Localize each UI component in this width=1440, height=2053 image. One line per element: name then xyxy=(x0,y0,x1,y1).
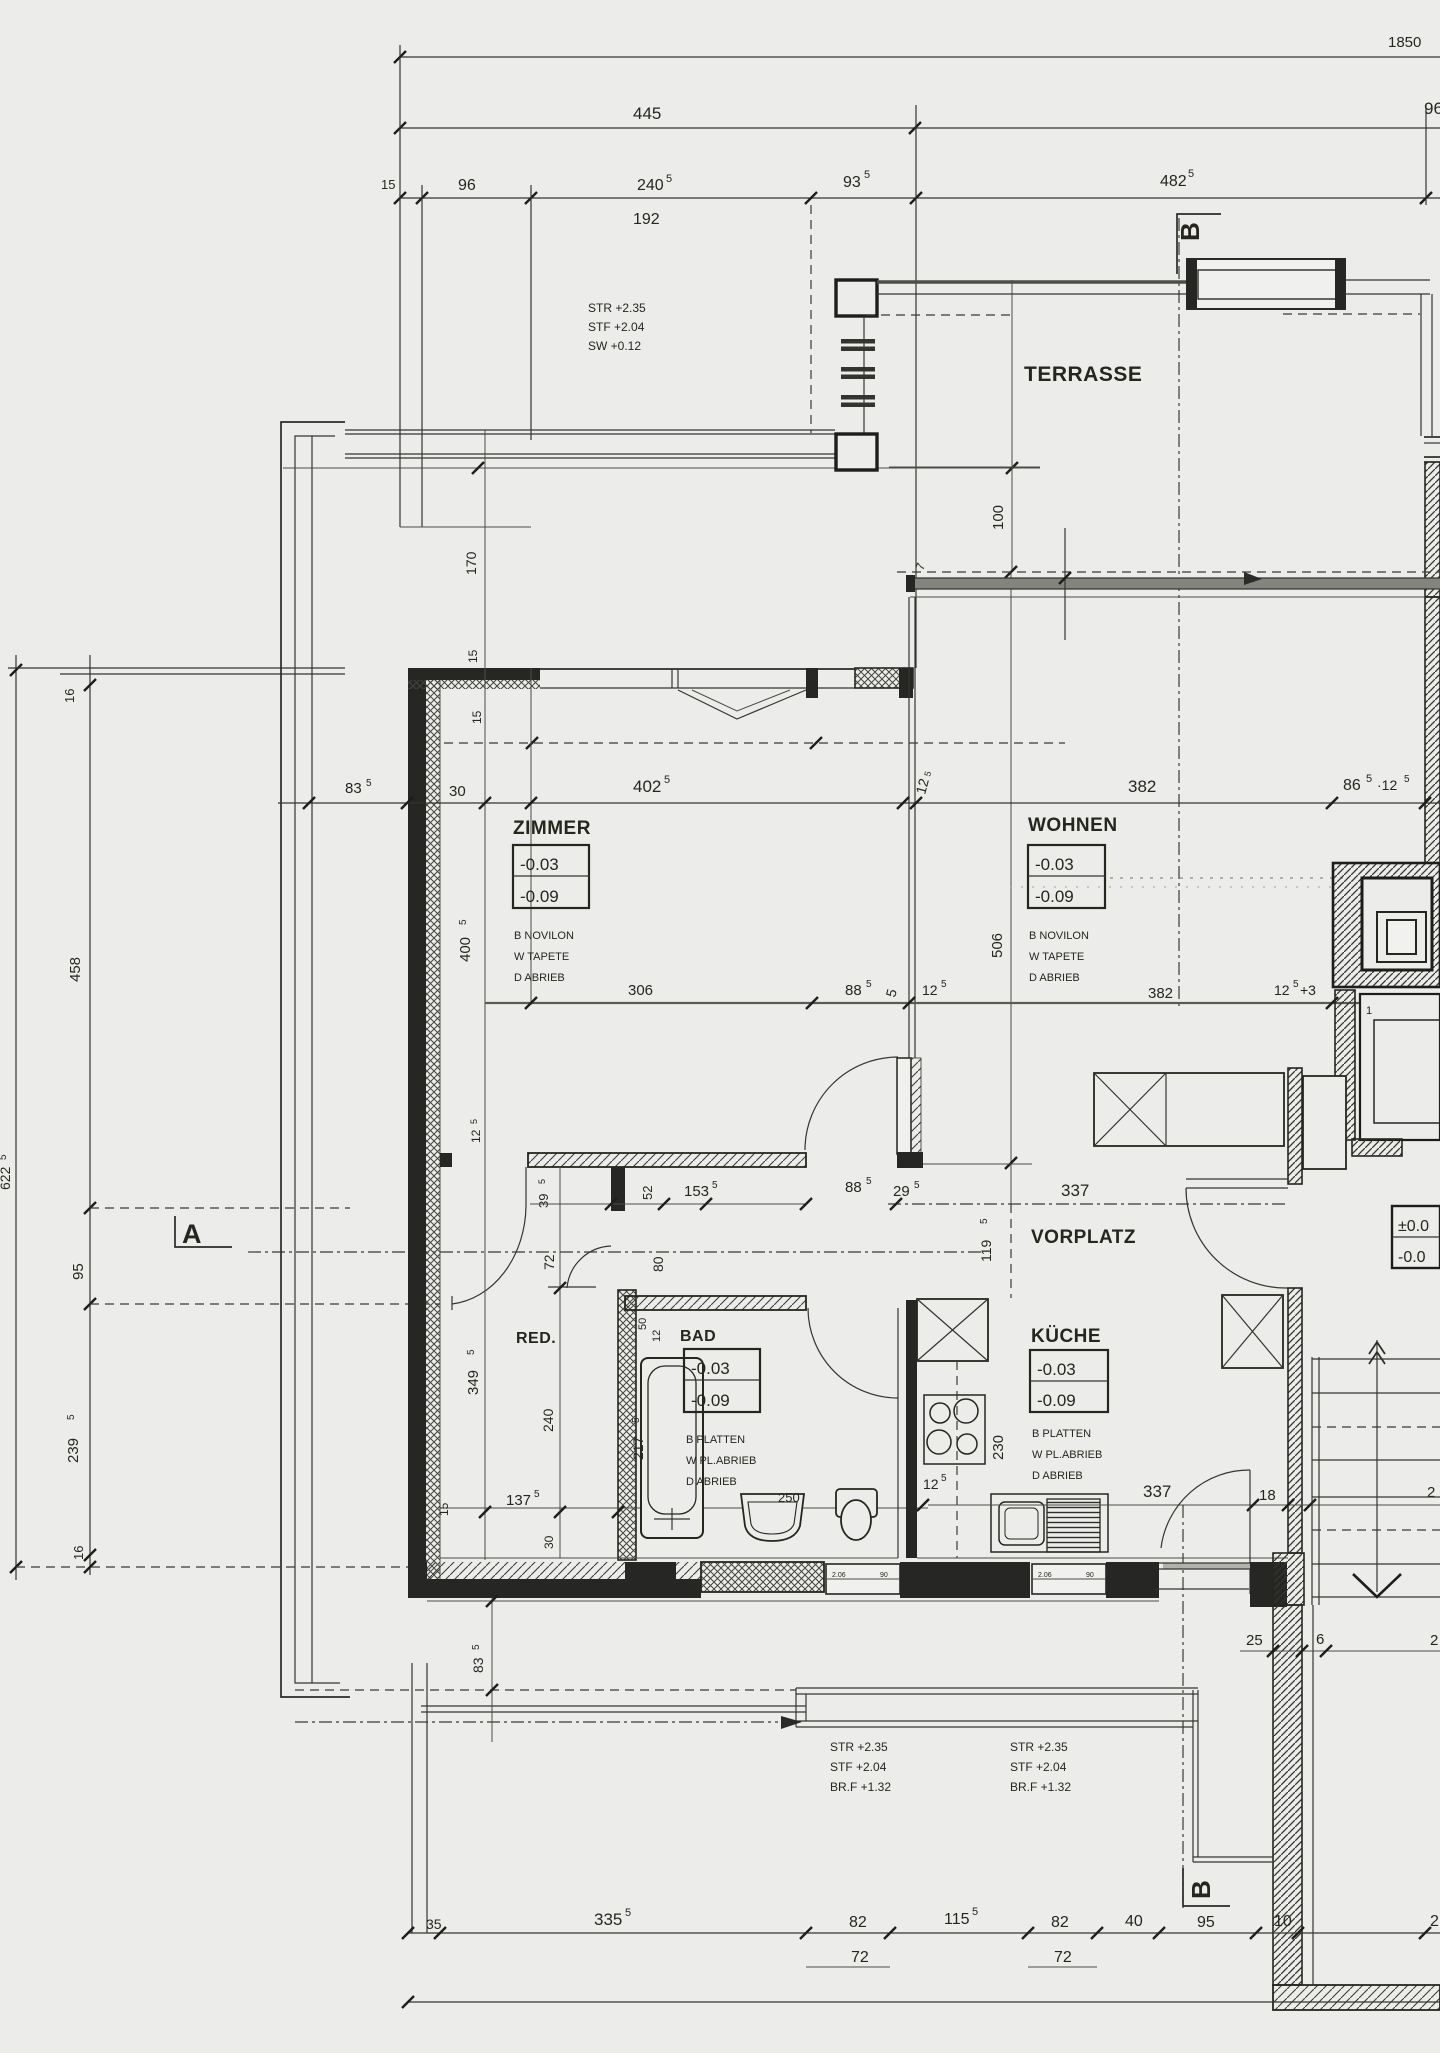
washbasin xyxy=(741,1494,804,1541)
svg-text:90: 90 xyxy=(880,1572,888,1579)
svg-text:5: 5 xyxy=(666,173,672,185)
section marker B top xyxy=(1177,214,1221,274)
svg-text:458: 458 xyxy=(67,957,84,982)
svg-text:2.06: 2.06 xyxy=(832,1572,846,1579)
beam east of window xyxy=(1345,279,1430,281)
long thin line y=468 with ticks xyxy=(283,467,1040,469)
svg-text:482: 482 xyxy=(1160,173,1187,190)
bad inner floor line xyxy=(440,1557,898,1559)
svg-text:25: 25 xyxy=(1246,1632,1263,1649)
svg-text:6: 6 xyxy=(1316,1631,1324,1648)
svg-text:BAD: BAD xyxy=(680,1328,716,1345)
pier xyxy=(806,668,818,698)
svg-text:192: 192 xyxy=(633,211,660,228)
svg-text:15: 15 xyxy=(413,1496,427,1510)
window opening V symbol xyxy=(678,690,806,719)
svg-text:B NOVILON: B NOVILON xyxy=(1029,930,1089,942)
svg-text:240: 240 xyxy=(637,177,664,194)
svg-text:5: 5 xyxy=(979,1218,990,1224)
right edge rails xyxy=(1420,294,1422,436)
svg-text:15: 15 xyxy=(470,710,484,724)
svg-text:5: 5 xyxy=(941,1473,947,1484)
svg-text:12: 12 xyxy=(469,1129,483,1143)
interior dashed line zimmer xyxy=(444,742,1065,744)
svg-text:239: 239 xyxy=(65,1438,82,1463)
ZIMMER north-east wall corner hatched xyxy=(855,668,913,688)
svg-text:250: 250 xyxy=(778,1490,800,1505)
bottom right dim line xyxy=(1240,1650,1440,1652)
bad value box xyxy=(684,1349,760,1412)
stove xyxy=(924,1395,985,1464)
svg-text:5: 5 xyxy=(864,169,870,181)
svg-text:5: 5 xyxy=(66,1414,77,1420)
svg-text:16: 16 xyxy=(71,1546,86,1560)
vorplatz dim line 337 xyxy=(888,1203,1288,1205)
svg-text:86: 86 xyxy=(1343,777,1361,794)
svg-text:39: 39 xyxy=(536,1194,551,1208)
svg-text:2: 2 xyxy=(1427,1484,1435,1501)
svg-text:-0.03: -0.03 xyxy=(1037,1360,1076,1379)
svg-text:5: 5 xyxy=(664,774,670,786)
svg-text:D ABRIEB: D ABRIEB xyxy=(1032,1470,1083,1482)
svg-text:5: 5 xyxy=(471,1644,482,1650)
svg-text:2.06: 2.06 xyxy=(1038,1572,1052,1579)
right exterior wall hatched (terrace to wohnen) xyxy=(1425,462,1440,597)
svg-text:-0.09: -0.09 xyxy=(691,1391,730,1410)
svg-text:5: 5 xyxy=(469,1119,479,1124)
svg-text:93: 93 xyxy=(843,174,861,191)
svg-text:5: 5 xyxy=(1366,773,1372,785)
window right xyxy=(818,668,855,670)
svg-text:18: 18 xyxy=(1259,1487,1276,1504)
top extension lines xyxy=(399,45,401,527)
svg-text:5: 5 xyxy=(712,1180,718,1191)
svg-text:72: 72 xyxy=(1054,1949,1072,1966)
svg-text:230: 230 xyxy=(990,1435,1007,1460)
svg-text:B PLATTEN: B PLATTEN xyxy=(1032,1428,1091,1440)
top dimension line 445 / 96 xyxy=(400,127,1440,129)
svg-text:WOHNEN: WOHNEN xyxy=(1028,815,1118,836)
main dim line y=803 xyxy=(278,802,1440,804)
svg-text:100: 100 xyxy=(990,505,1007,530)
svg-text:B PLATTEN: B PLATTEN xyxy=(686,1434,745,1446)
svg-text:349: 349 xyxy=(465,1370,482,1395)
vorplatz east wall upper xyxy=(1288,1068,1302,1184)
svg-text:12: 12 xyxy=(922,982,938,998)
door bad-red swing xyxy=(567,1246,611,1288)
svg-text:-0.09: -0.09 xyxy=(1037,1391,1076,1410)
svg-text:88: 88 xyxy=(845,982,862,999)
pergola west wall (double lines) xyxy=(281,422,350,1697)
svg-text:82: 82 xyxy=(1051,1914,1069,1931)
svg-text:W TAPETE: W TAPETE xyxy=(1029,951,1084,963)
svg-text:STF +2.04: STF +2.04 xyxy=(1010,1760,1067,1774)
svg-text:STR +2.35: STR +2.35 xyxy=(830,1740,888,1754)
kueche inner floor line xyxy=(917,1557,1288,1559)
svg-text:·12: ·12 xyxy=(1377,777,1397,793)
stairhall west wall lower xyxy=(1273,1553,1304,1605)
door bad leaf+swing xyxy=(897,1308,899,1400)
zimmer value box xyxy=(513,845,589,908)
svg-text:VORPLATZ: VORPLATZ xyxy=(1031,1227,1136,1248)
kueche value box xyxy=(1030,1350,1108,1412)
svg-text:-0.09: -0.09 xyxy=(520,887,559,906)
svg-text:115: 115 xyxy=(944,1911,970,1928)
stairs xyxy=(1311,1357,1313,1605)
svg-text:35: 35 xyxy=(426,1916,442,1932)
svg-text:95: 95 xyxy=(70,1263,87,1280)
svg-text:TERRASSE: TERRASSE xyxy=(1024,363,1142,386)
svg-text:337: 337 xyxy=(1061,1181,1089,1200)
svg-text:5: 5 xyxy=(866,979,872,990)
terrace north window xyxy=(1187,259,1345,309)
svg-text:337: 337 xyxy=(1143,1482,1171,1501)
ZIMMER east wall double line xyxy=(908,597,910,1058)
svg-text:10: 10 xyxy=(1274,1913,1292,1930)
svg-text:382: 382 xyxy=(1148,985,1173,1002)
entry door swing xyxy=(1161,1470,1250,1548)
garden walls south xyxy=(295,1689,796,1691)
svg-text:5: 5 xyxy=(458,919,469,925)
chimney block xyxy=(1333,863,1440,987)
vorplatz east wall lower xyxy=(1288,1288,1302,1553)
svg-text:15: 15 xyxy=(381,177,395,192)
svg-text:72: 72 xyxy=(851,1949,869,1966)
top dimension line 1850 xyxy=(400,56,1440,58)
VORPLATZ closet with X xyxy=(1094,1073,1284,1146)
svg-text:382: 382 xyxy=(1128,777,1156,796)
door vorplatz-stairhall xyxy=(1186,1178,1288,1180)
svg-text:12: 12 xyxy=(1274,982,1290,998)
svg-text:30: 30 xyxy=(449,783,466,800)
svg-text:96: 96 xyxy=(458,177,476,194)
svg-text:12: 12 xyxy=(923,1476,939,1492)
bad west wall xyxy=(618,1290,636,1560)
svg-text:15: 15 xyxy=(437,1502,451,1516)
wohnen north wall (window band) xyxy=(897,571,1440,573)
stairhall south wall xyxy=(1273,1985,1440,2010)
bathtub xyxy=(641,1358,703,1538)
svg-text:±0.0: ±0.0 xyxy=(1398,1218,1429,1235)
dim line y=1003 xyxy=(485,1002,1440,1004)
svg-text:STF +2.04: STF +2.04 xyxy=(588,320,645,334)
svg-text:D ABRIEB: D ABRIEB xyxy=(686,1476,737,1488)
svg-text:5: 5 xyxy=(0,1154,9,1160)
svg-text:STR +2.35: STR +2.35 xyxy=(588,301,646,315)
svg-text:95: 95 xyxy=(1197,1914,1215,1931)
svg-text:RED.: RED. xyxy=(516,1330,556,1347)
svg-text:88: 88 xyxy=(845,1179,862,1196)
left vertical dimension column xyxy=(15,655,17,1580)
dim line y=1204 red/bad xyxy=(530,1203,806,1205)
terrace post top xyxy=(836,280,877,316)
svg-text:D ABRIEB: D ABRIEB xyxy=(1029,972,1080,984)
dim 83.5 vertical at left xyxy=(491,1598,493,1742)
svg-text:SW +0.12: SW +0.12 xyxy=(588,339,641,353)
section marker B bottom xyxy=(1183,1868,1230,1906)
svg-text:5: 5 xyxy=(1293,979,1299,990)
svg-text:402: 402 xyxy=(633,777,661,796)
svg-text:137: 137 xyxy=(506,1492,531,1509)
svg-text:5: 5 xyxy=(1404,774,1410,785)
svg-text:12: 12 xyxy=(651,1330,663,1342)
door zimmer-vorplatz leaf and swing xyxy=(897,1058,911,1154)
red/bad partition upper xyxy=(611,1167,625,1211)
svg-text:16: 16 xyxy=(62,689,77,703)
svg-text:B NOVILON: B NOVILON xyxy=(514,930,574,942)
bottom dimension row xyxy=(408,1932,1440,1934)
ZIMMER north wall left part xyxy=(408,668,540,680)
kueche NE closet with X xyxy=(1222,1295,1283,1368)
dimension 506 vertical xyxy=(1010,572,1012,1204)
top dimension line 15/96/240.5/93.5/482.5 xyxy=(400,197,1440,199)
svg-text:15: 15 xyxy=(466,649,480,663)
section marker A xyxy=(175,1216,232,1247)
left horizontal connector lines xyxy=(8,667,345,669)
svg-text:ZIMMER: ZIMMER xyxy=(513,818,591,839)
svg-text:5: 5 xyxy=(466,1349,477,1355)
svg-text:40: 40 xyxy=(1125,1913,1143,1930)
svg-text:622: 622 xyxy=(0,1166,13,1190)
svg-text:W TAPETE: W TAPETE xyxy=(514,951,569,963)
svg-text:506: 506 xyxy=(989,933,1006,958)
svg-text:KÜCHE: KÜCHE xyxy=(1031,1326,1101,1347)
vertical dim line x=531 lower xyxy=(530,668,532,1005)
terrace ladder rungs xyxy=(863,316,865,433)
section line B top xyxy=(1178,218,1180,1010)
svg-text:83: 83 xyxy=(345,780,362,797)
svg-text:5: 5 xyxy=(366,778,372,789)
svg-text:BR.F +1.32: BR.F +1.32 xyxy=(830,1780,891,1794)
svg-text:445: 445 xyxy=(633,104,661,123)
line y=467 horizontal into terrace xyxy=(889,466,1040,468)
toilet xyxy=(836,1489,877,1517)
svg-text:119: 119 xyxy=(978,1239,994,1262)
fireplace box below chimney xyxy=(1335,990,1355,1140)
svg-text:153: 153 xyxy=(684,1183,709,1200)
kueche dim line 337 xyxy=(928,1504,1440,1506)
svg-text:-0.09: -0.09 xyxy=(1035,887,1074,906)
svg-text:72: 72 xyxy=(541,1254,557,1270)
svg-text:BR.F +1.32: BR.F +1.32 xyxy=(1010,1780,1071,1794)
KUECHE closet NW with X xyxy=(917,1299,988,1361)
svg-text:335: 335 xyxy=(594,1910,622,1929)
svg-text:306: 306 xyxy=(628,982,653,999)
svg-text:5: 5 xyxy=(625,1907,631,1919)
dimension 100 vertical xyxy=(1011,280,1013,572)
ZIMMER south partition wall xyxy=(440,1153,452,1167)
svg-text:5: 5 xyxy=(941,979,947,990)
terrace post bottom xyxy=(836,434,877,470)
svg-text:52: 52 xyxy=(640,1186,655,1200)
svg-text:5: 5 xyxy=(972,1906,978,1918)
svg-text:5: 5 xyxy=(534,1489,540,1500)
svg-text:2: 2 xyxy=(1430,1913,1439,1930)
svg-text:82: 82 xyxy=(849,1914,867,1931)
svg-text:240: 240 xyxy=(540,1408,556,1432)
pergola beams to terrace xyxy=(345,429,835,431)
svg-text:5: 5 xyxy=(1188,168,1194,180)
door zimmer-red swing xyxy=(525,1167,527,1206)
svg-text:217: 217 xyxy=(630,1436,646,1460)
svg-text:170: 170 xyxy=(463,551,479,575)
svg-text:5: 5 xyxy=(866,1176,872,1187)
svg-text:83: 83 xyxy=(470,1657,486,1673)
terrace beam east double line xyxy=(877,280,1188,283)
wohnen value box xyxy=(1028,845,1105,908)
svg-text:5: 5 xyxy=(914,1180,920,1191)
kueche counter with sink xyxy=(991,1494,1108,1552)
svg-text:1: 1 xyxy=(1366,1005,1372,1017)
dashed line kueche xyxy=(956,1361,958,1558)
svg-text:400: 400 xyxy=(457,937,474,962)
ZIMMER west exterior wall xyxy=(408,668,426,1598)
svg-text:30: 30 xyxy=(542,1535,556,1549)
BAD top wall xyxy=(625,1296,806,1310)
svg-text:2: 2 xyxy=(1430,1632,1438,1649)
svg-text:D ABRIEB: D ABRIEB xyxy=(514,972,565,984)
svg-text:90: 90 xyxy=(1086,1572,1094,1579)
svg-text:B: B xyxy=(1186,1880,1216,1899)
bad east wall xyxy=(897,1400,899,1558)
red dims xyxy=(559,1167,561,1558)
svg-text:5: 5 xyxy=(537,1179,547,1184)
svg-text:-0.03: -0.03 xyxy=(520,855,559,874)
svg-text:W PL.ABRIEB: W PL.ABRIEB xyxy=(686,1455,756,1467)
svg-text:-0.03: -0.03 xyxy=(691,1359,730,1378)
dashed line terrace xyxy=(866,314,1013,316)
plus-minus box right edge xyxy=(1392,1206,1440,1268)
svg-text:STR +2.35: STR +2.35 xyxy=(1010,1740,1068,1754)
south exterior wall xyxy=(408,1562,427,1598)
svg-text:W PL.ABRIEB: W PL.ABRIEB xyxy=(1032,1449,1102,1461)
ZIMMER north window xyxy=(540,668,806,670)
svg-text:1850: 1850 xyxy=(1388,34,1421,51)
svg-text:STF +2.04: STF +2.04 xyxy=(830,1760,887,1774)
svg-text:50: 50 xyxy=(637,1318,649,1330)
svg-text:29: 29 xyxy=(893,1183,910,1200)
svg-text:5: 5 xyxy=(631,1417,642,1423)
svg-text:-0.0: -0.0 xyxy=(1398,1249,1426,1266)
svg-text:A: A xyxy=(182,1219,202,1249)
svg-text:+3: +3 xyxy=(1300,982,1316,998)
svg-text:-0.03: -0.03 xyxy=(1035,855,1074,874)
section line A xyxy=(248,1251,985,1253)
svg-text:80: 80 xyxy=(650,1256,666,1272)
vertical dim line x=485 xyxy=(484,430,486,1005)
